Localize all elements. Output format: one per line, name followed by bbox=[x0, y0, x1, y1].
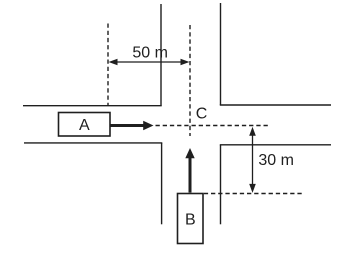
svg-text:30 m: 30 m bbox=[258, 152, 294, 169]
svg-text:50 m: 50 m bbox=[132, 45, 168, 62]
svg-text:B: B bbox=[185, 211, 196, 228]
svg-text:A: A bbox=[79, 117, 90, 134]
svg-text:C: C bbox=[196, 106, 208, 123]
